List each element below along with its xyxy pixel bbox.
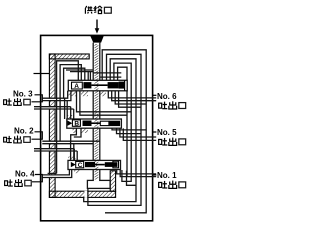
wire: No.1 leader tick bbox=[153, 174, 157, 176]
piston B land 1 bbox=[83, 121, 92, 127]
svg-text:No. 3: No. 3 bbox=[13, 89, 33, 98]
channel: A discharge mid bbox=[77, 91, 132, 115]
piston A land 1 bbox=[83, 82, 91, 88]
wire: No.5 leader tick bbox=[153, 131, 157, 133]
piston C end box bbox=[113, 161, 119, 168]
bottom channel box bbox=[87, 180, 110, 188]
hatched body wall riser bbox=[110, 171, 115, 191]
svg-text:No. 4: No. 4 bbox=[15, 169, 35, 178]
piston A rod bbox=[91, 84, 107, 86]
bore wall hatch cells A bbox=[69, 91, 77, 96]
channel: top-right nested P5 bbox=[118, 67, 127, 177]
wire: left body leader bbox=[34, 73, 50, 75]
piston bore C bbox=[68, 160, 121, 169]
hatched body wall bottom bbox=[49, 191, 115, 197]
white channel gaps across hatched walls bbox=[42, 99, 87, 198]
svg-text:No. 1: No. 1 bbox=[157, 171, 177, 180]
channel: outlet No.3 bbox=[42, 91, 71, 119]
channel: outlet No.5 bbox=[112, 128, 156, 140]
piston A land 2 bbox=[108, 82, 119, 88]
supply opening into bottom box bbox=[94, 180, 99, 182]
supply channel dashes bbox=[95, 44, 99, 180]
channel: top-right nested P2 bbox=[88, 54, 141, 205]
channel: left stub feed to C bbox=[34, 149, 77, 161]
channel: top-right nested P4 bbox=[114, 63, 131, 181]
channel: outlet No.1 bbox=[117, 168, 157, 177]
outlet No.3 bracket bbox=[32, 95, 43, 102]
piston bore B bbox=[67, 119, 122, 128]
piston B window bbox=[100, 121, 109, 125]
channel: supply cross line right bbox=[93, 73, 121, 77]
supply arrow bbox=[95, 20, 100, 34]
svg-text:No. 6: No. 6 bbox=[157, 92, 177, 101]
svg-text:A: A bbox=[74, 83, 79, 90]
channel: top-right nested P1 bbox=[102, 50, 146, 213]
piston C label box bbox=[76, 161, 84, 167]
piston bore A bbox=[68, 80, 127, 91]
piston C land 1 bbox=[85, 162, 95, 167]
svg-text:No. 2: No. 2 bbox=[14, 126, 34, 135]
distributor body outline bbox=[41, 35, 153, 220]
svg-text:No. 5: No. 5 bbox=[157, 128, 177, 137]
channel: outlet No.4 / C discharge bbox=[42, 170, 71, 178]
hatched body wall left bbox=[49, 54, 55, 197]
piston A label box bbox=[72, 82, 83, 89]
hatched body wall top bbox=[49, 54, 89, 59]
outlet No.5 label bbox=[157, 128, 186, 146]
outlet No.2 label bbox=[4, 126, 34, 143]
svg-text:C: C bbox=[78, 162, 83, 169]
piston B land 2 bbox=[109, 121, 120, 126]
channel: supply to piston A left bbox=[66, 70, 93, 80]
channel: top-left nested L2 bbox=[60, 65, 81, 142]
piston A end box bbox=[119, 82, 125, 89]
channel: top-right nested P3 bbox=[84, 59, 136, 202]
channel: outlet No.6 bbox=[108, 91, 156, 107]
bore wall hatch cells B bbox=[67, 115, 72, 119]
supply channel walls bbox=[93, 43, 100, 181]
piston C rod bbox=[95, 164, 105, 166]
outlet No.4 label bbox=[5, 169, 35, 186]
piston C arrow bbox=[71, 162, 76, 167]
piston B rod bbox=[92, 122, 101, 124]
piston B label box bbox=[72, 120, 80, 126]
outlet No.4 bracket bbox=[32, 175, 42, 182]
outlet No.6 label bbox=[157, 92, 186, 109]
channel: outlet No.2 and feed to C bbox=[42, 141, 100, 160]
supply channel crossing bores bbox=[95, 81, 99, 90]
svg-text:B: B bbox=[74, 121, 79, 128]
piston B arrow bbox=[67, 120, 72, 126]
channel: top-left nested L3 bbox=[64, 68, 85, 98]
channel: top-left nested L1 bbox=[57, 61, 79, 174]
outlet No.3 label bbox=[4, 89, 33, 105]
wire: No.6 leader tick bbox=[153, 94, 157, 96]
piston C land 2 bbox=[105, 162, 118, 167]
bore wall hatch cells C bbox=[68, 157, 75, 161]
outlet No.1 label bbox=[157, 171, 186, 189]
supply funnel bbox=[90, 35, 104, 42]
channel: B discharge left bbox=[71, 128, 81, 141]
supply port label 供给口 bbox=[85, 6, 111, 14]
channel: left stub feed to B bbox=[34, 107, 74, 119]
outlet No.2 bracket bbox=[32, 132, 43, 139]
channel: under-C right stub bbox=[127, 171, 137, 186]
